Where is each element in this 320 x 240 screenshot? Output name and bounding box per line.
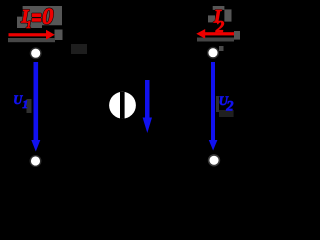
gray halo right of arrow I2 (234, 31, 240, 40)
current arrow I1 (9, 30, 55, 40)
gray halo under arrow I1 (8, 38, 55, 42)
label U2 (219, 93, 234, 114)
gray halo left of label U2 (216, 96, 219, 112)
current source symbol (109, 92, 136, 119)
voltage arrow U1 (31, 62, 40, 152)
gray halo near port2 top terminal (219, 46, 224, 51)
svg-text:1: 1 (22, 97, 28, 111)
label I1=0 (20, 4, 54, 31)
current arrow I2 (196, 29, 234, 39)
gray halo behind label I2 (213, 6, 225, 10)
port1 bottom terminal (30, 156, 41, 167)
gray halo behind label I1=0 (17, 6, 62, 28)
port2 bottom terminal (209, 155, 220, 166)
source voltage arrow (center, blue) (143, 80, 152, 133)
faint smudge top-center (black ink remnant) (71, 44, 87, 54)
voltage arrow U2 (209, 62, 218, 151)
svg-text:1: 1 (26, 20, 31, 31)
gray halo right of label U1 (27, 99, 32, 113)
gray halo right of arrow I1 (55, 30, 63, 41)
port2 top terminal (208, 47, 219, 58)
svg-text:0: 0 (42, 4, 54, 29)
gray halo under arrow I2 (197, 38, 234, 42)
port1 top terminal (30, 48, 41, 59)
svg-text:2: 2 (225, 98, 233, 114)
label U1 (13, 93, 28, 111)
label I2 (213, 6, 225, 36)
